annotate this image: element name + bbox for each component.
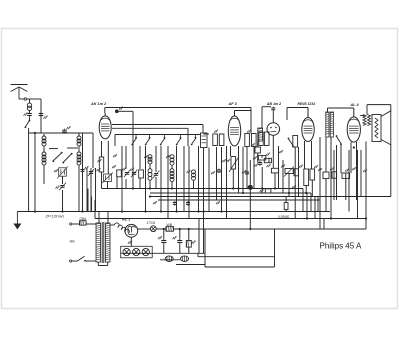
wire x217 vert — [216, 147, 218, 200]
wire V4 topcap left — [287, 107, 308, 109]
wire P1 down — [232, 169, 234, 189]
wire x203 down — [203, 219, 205, 254]
resistor R8 diode load — [265, 189, 271, 193]
resistor R3 — [139, 170, 144, 178]
label mid zone a — [222, 159, 226, 162]
wire CV1 down — [62, 176, 64, 184]
junction — [306, 217, 308, 219]
wire x179 up — [179, 229, 181, 238]
wire x269 feed — [268, 158, 270, 162]
switch S9 blade — [336, 135, 342, 145]
wire V1 grid line 1 — [112, 124, 203, 126]
label near L5 — [166, 155, 170, 158]
wire vert x87 — [86, 168, 88, 212]
wire lamp to WB — [156, 228, 166, 230]
capacitor C14 filter — [161, 238, 166, 245]
junction — [175, 210, 177, 212]
wire vertical feed — [145, 146, 147, 212]
wire x357 vert — [357, 150, 359, 219]
label row y203 a — [153, 201, 157, 204]
wire spk top drop l — [366, 105, 368, 115]
junction — [232, 187, 234, 189]
switch S5 contact — [160, 135, 166, 146]
wire vertical feed — [139, 178, 141, 189]
wire AZ1 anode out — [138, 228, 151, 230]
tube V3 AB2 circle — [267, 123, 280, 136]
junction — [132, 187, 134, 189]
bus y196 — [150, 196, 391, 198]
wire R4 up — [257, 141, 259, 147]
wire C15 gnd — [179, 245, 181, 253]
wire drop x251 — [250, 108, 252, 134]
wire V1 leg2 — [107, 141, 109, 174]
wire V5 topcap left — [328, 107, 354, 109]
wire x221 vert — [221, 147, 223, 212]
wire cluster link — [261, 155, 263, 157]
label right zone b — [363, 169, 367, 172]
wire x331 vert — [330, 137, 332, 219]
capacitor C19 — [217, 169, 221, 174]
wire x243 vert — [242, 147, 244, 194]
wire L4 link — [149, 164, 151, 169]
wire elec bus y264 — [176, 264, 205, 266]
IF can T2a — [213, 134, 218, 146]
svg-text:AK 1m 2: AK 1m 2 — [90, 102, 107, 106]
junction — [149, 195, 151, 197]
wire x286 vert a — [285, 197, 287, 203]
wire nested corner vertical — [319, 200, 321, 229]
transformer TR primary — [96, 223, 101, 262]
label near L6 — [187, 170, 191, 173]
wire x250 blob down — [249, 190, 251, 229]
wire gridcap right — [119, 110, 133, 112]
resistor R4 — [255, 147, 260, 153]
label misc values — [98, 159, 102, 162]
svg-text:0,05MΩ: 0,05MΩ — [278, 215, 290, 219]
label P1 — [226, 159, 230, 162]
coil L6 — [192, 170, 196, 180]
wire R7 down — [274, 173, 276, 189]
wire V3 to cluster — [272, 146, 274, 168]
label C1 value — [24, 113, 28, 116]
wire nest h y267 — [205, 266, 275, 268]
resistor R12 — [323, 172, 329, 179]
dial lamp La3 — [133, 248, 140, 255]
coil heater loops — [115, 223, 130, 234]
capacitor C12 — [173, 201, 177, 206]
wire x226 vert — [226, 146, 228, 219]
transformer TR core — [102, 222, 104, 263]
switch S10 mains — [78, 256, 86, 261]
wire coil mid right — [78, 146, 80, 152]
label near V1 — [113, 154, 117, 157]
label C5 — [85, 166, 89, 169]
wire x209 vert — [208, 148, 210, 212]
transformer TR secondary — [105, 223, 110, 262]
wire coil frame top-left — [43, 134, 45, 136]
label mid zone d — [279, 150, 283, 153]
coil L7 IF sec — [258, 128, 263, 141]
wire x295 vert — [294, 147, 296, 219]
wire V5 legs a — [350, 142, 352, 148]
wire vert x95 — [95, 168, 97, 212]
switch S7 contact — [191, 135, 197, 146]
mains terminal a — [70, 223, 72, 225]
wire V5 anode stub — [345, 173, 347, 178]
node c14 — [163, 228, 165, 230]
bus ground y211 — [17, 211, 330, 213]
node B+ blob — [249, 228, 251, 230]
wire x326 vert — [325, 137, 327, 172]
junction blob big — [248, 185, 253, 190]
switch S2 wave-band blade 2 — [62, 153, 72, 164]
wire vertical feed — [198, 146, 200, 212]
label R14 — [330, 167, 334, 170]
label C8 — [130, 168, 134, 171]
coil L4a IF osc — [148, 155, 152, 164]
wire vert x28 to gnd bus — [28, 133, 30, 212]
label near L4 — [144, 155, 148, 158]
junction — [288, 192, 290, 194]
label heater — [128, 241, 132, 244]
wire nested corner vertical — [306, 193, 308, 219]
label R9 — [299, 165, 303, 168]
label P2 — [281, 165, 285, 168]
tube V1 AK2 mixer — [99, 113, 111, 139]
svg-text:Philips 45 A: Philips 45 A — [320, 242, 362, 251]
wire B+ ext — [324, 228, 366, 230]
wire drop x203 — [202, 125, 204, 134]
wire vertical feed — [139, 146, 141, 169]
wire L2 bottom — [43, 165, 45, 176]
node c16 — [188, 228, 190, 230]
IF can T5 — [293, 136, 298, 148]
wire y259 link — [160, 259, 180, 261]
wire C14 gnd — [163, 245, 165, 253]
wire transformer sec bottom a — [97, 262, 99, 266]
wire spk top drop r — [390, 105, 392, 111]
resistor R6 — [264, 158, 271, 162]
wire nest v x205 — [204, 229, 206, 267]
junction — [149, 187, 151, 189]
label CV1 — [54, 169, 58, 172]
capacitor C2 — [39, 111, 44, 118]
wire x326b vert — [325, 179, 327, 212]
wire mains a2 — [86, 223, 96, 225]
wire coil mid left — [43, 146, 45, 152]
wire vertical feed — [183, 146, 185, 212]
resistor R10 — [310, 169, 315, 180]
capacitor C5 — [81, 168, 85, 173]
variable capacitor CV1 — [57, 166, 68, 178]
potentiometer P2 volume — [284, 167, 294, 177]
wire link L2-L3 upper — [49, 148, 58, 150]
wire mains b2 — [86, 260, 96, 262]
resistor R11 — [342, 173, 350, 178]
wire x250 vert up — [249, 160, 251, 185]
node V2 cath — [237, 187, 239, 189]
bus B+ y229 — [174, 228, 325, 230]
wire vertical feed — [176, 146, 178, 212]
wire x283 vert — [282, 160, 284, 193]
IF can T3b — [252, 134, 257, 147]
svg-text:GBA: GBA — [80, 217, 88, 221]
resistor R7 — [271, 168, 278, 173]
wire vertical feed — [188, 146, 190, 219]
wire x247 vert — [246, 147, 248, 189]
junction — [171, 187, 173, 189]
wire sec verticals b — [107, 212, 109, 224]
wire nested corner vertical — [317, 197, 319, 212]
coil L9 choke b — [330, 112, 333, 137]
wire coil drop — [29, 99, 31, 103]
wire x262 down — [261, 189, 263, 194]
wire vertical feed — [125, 146, 127, 169]
coil L3b — [77, 152, 81, 165]
bus filter y253 — [121, 252, 205, 254]
label R5 — [253, 156, 257, 159]
electrolytic can C18 — [181, 256, 189, 262]
wire vertical feed — [193, 180, 195, 188]
capacitor C13 — [186, 201, 190, 206]
junction — [61, 210, 63, 212]
wire nested corner vertical — [314, 197, 316, 219]
wire vertical feed — [155, 146, 157, 172]
label mid zone b — [211, 171, 215, 174]
wire sec top — [110, 224, 115, 226]
wire switch to bus — [28, 128, 30, 133]
capacitor C11 — [258, 161, 262, 166]
wire trafo top feeds c — [94, 200, 96, 219]
wire x298 vert — [298, 147, 300, 197]
coil L2b — [42, 152, 46, 165]
wire x254 vert — [253, 147, 255, 189]
coil L10 output primary — [363, 115, 366, 126]
label grid cap — [119, 107, 123, 110]
bus AVC y188 — [102, 188, 304, 190]
wire x320 vert — [319, 137, 321, 200]
wire x188.8 up — [188, 229, 190, 241]
bus y200 — [158, 199, 320, 201]
wire nested corner vertical — [323, 219, 325, 230]
label C15 — [173, 236, 177, 239]
wire R9 down — [305, 186, 307, 194]
wire nest h y256 — [198, 256, 275, 258]
wire V3 bottom — [272, 135, 274, 146]
wire drop x287 to AB1 — [286, 108, 288, 121]
svg-text:AF 3: AF 3 — [228, 102, 238, 106]
wire mains b — [72, 260, 78, 262]
junction — [160, 210, 162, 212]
coil L4b — [148, 169, 152, 181]
wire vert x91 — [90, 168, 92, 212]
wire x203 vert — [203, 148, 205, 219]
svg-text:ZF=128 kHz: ZF=128 kHz — [45, 215, 65, 219]
wire antenna to node — [19, 98, 24, 100]
wire vert x82 — [82, 133, 84, 212]
wire CV2 down — [107, 181, 109, 189]
node V5 k — [353, 146, 355, 148]
grid cap blob V1 — [115, 110, 119, 114]
label mid zone e — [292, 185, 296, 188]
wire x345.8 vert — [345, 178, 347, 200]
capacitor C1 — [27, 111, 32, 118]
wire V5 cath down — [350, 148, 352, 174]
wire R10 down — [311, 180, 313, 197]
wire trafo top feeds b — [91, 197, 93, 212]
junction — [220, 210, 222, 212]
resistor R14 — [332, 172, 337, 178]
wire left bus — [29, 132, 93, 134]
coil L5b — [170, 169, 174, 182]
label C14 — [158, 236, 162, 239]
wire x289 vert — [288, 193, 290, 197]
trimmer C8 — [131, 170, 138, 177]
wire x93 down — [92, 133, 94, 168]
wire V2 topcap — [235, 110, 252, 112]
junction — [121, 210, 123, 212]
wire vertical feed — [160, 146, 162, 212]
wire V2 leg2 — [238, 146, 240, 193]
junction — [261, 187, 263, 189]
wire L1 to C1 — [29, 111, 31, 114]
wire vertical feed — [171, 182, 173, 189]
label C4 — [56, 186, 60, 189]
antenna connector circle — [24, 98, 26, 100]
wire vertical feed — [149, 180, 151, 188]
wire node to input — [27, 98, 42, 100]
resistor R15 — [294, 169, 298, 176]
capacitor C16 block — [186, 241, 191, 248]
wire C1 to switch — [29, 118, 31, 121]
wire transformer sec bottom b — [107, 262, 109, 266]
wire V3 top — [272, 111, 274, 123]
capacitor C3 series — [62, 129, 67, 134]
wire L5 link — [171, 165, 173, 169]
dial lamp La1 — [150, 226, 156, 232]
wire C10 left lead — [262, 106, 271, 108]
wire L3 bottom — [78, 165, 80, 212]
coil L1 antenna — [27, 103, 31, 111]
resistor WB mains dropper — [166, 227, 174, 232]
svg-text:RENS 1234: RENS 1234 — [298, 102, 316, 106]
wire switch rail — [115, 134, 201, 136]
label right zone a — [352, 167, 356, 170]
wire drop x133 — [132, 111, 134, 150]
resistor R9 cathode — [304, 169, 309, 186]
label R10 — [314, 165, 318, 168]
wire vert x35 to gnd bus — [34, 133, 36, 212]
wire x349 vert — [348, 150, 350, 212]
wire x334 vert — [333, 150, 335, 200]
wire x202 stub — [204, 133, 210, 135]
wire P2 down — [288, 174, 290, 194]
IF can T4b — [265, 132, 269, 146]
label R2 — [112, 165, 116, 168]
wire AZ1 down — [130, 237, 132, 246]
wire x199 down — [198, 219, 200, 254]
wire V1 topcap up — [104, 108, 106, 114]
bus y218 — [95, 218, 366, 220]
wire vertical feed — [116, 177, 118, 189]
wire top line L1 long — [105, 107, 251, 109]
wire V5 anode top — [360, 115, 364, 117]
IF can T4a — [259, 132, 263, 146]
label R8 — [260, 189, 264, 192]
wire R4 down — [257, 153, 259, 163]
tube V2 AF3 — [228, 111, 240, 147]
wire input drop — [40, 99, 42, 133]
label R12 — [318, 168, 322, 171]
junction — [197, 210, 199, 212]
wire R1 down — [101, 172, 103, 189]
speaker cone — [381, 111, 391, 145]
junction — [305, 192, 307, 194]
junction — [202, 210, 204, 212]
dial lamp box — [121, 246, 153, 257]
coil L8 choke a — [326, 112, 329, 137]
wire speaker top — [367, 104, 391, 106]
IF can T1 ticks — [202, 136, 207, 143]
wire nest v x274 — [274, 229, 276, 267]
mains terminal b — [70, 260, 72, 262]
wire V5 join — [356, 148, 358, 201]
switch S6 contact — [176, 135, 182, 146]
resistor R1 cathode — [99, 157, 103, 172]
wire nested corner vertical — [310, 193, 312, 212]
resistor R2 — [117, 170, 122, 177]
label T2 — [214, 130, 218, 133]
wire x336 vert — [336, 145, 338, 200]
node c15 — [179, 228, 181, 230]
wire C4 to gnd bus — [62, 190, 64, 212]
label C3 value — [67, 126, 71, 129]
antenna A1 — [11, 85, 28, 100]
junction — [330, 217, 332, 219]
label C2 value — [44, 116, 48, 119]
capacitor C15 filter — [177, 238, 182, 245]
tube V6 AZ1 rectifier — [125, 224, 138, 237]
junction — [81, 210, 83, 212]
resistor R13 — [284, 203, 288, 210]
electrolytic can C17 — [165, 256, 173, 262]
wire x286 vert b — [285, 210, 287, 212]
label T3 — [247, 130, 251, 133]
label C7 — [122, 168, 126, 171]
switch S1 blade — [25, 120, 31, 129]
switch S8 blade — [288, 138, 294, 148]
wire C16 gnd — [188, 247, 190, 253]
wire x278 vert — [278, 146, 280, 189]
wire vertical feed — [125, 179, 127, 189]
wire nested corner vertical — [302, 189, 304, 212]
coil L5a — [170, 155, 174, 166]
wire sec verticals a — [98, 212, 100, 224]
dial lamp La4 — [142, 248, 149, 255]
wire sec bottom link — [98, 265, 107, 267]
label C6 — [97, 168, 101, 171]
tube V5 AL4 — [347, 108, 360, 142]
wire vertical feed — [132, 150, 134, 189]
junction — [144, 210, 146, 212]
wire vertical feed — [167, 146, 169, 219]
wire mains a — [72, 223, 80, 225]
coil L2a — [42, 136, 46, 146]
wire speaker right down — [390, 145, 392, 197]
wire V4 legs1 — [304, 141, 306, 169]
wire coil frame top-right — [78, 133, 80, 136]
svg-text:Wa: Wa — [70, 240, 75, 244]
